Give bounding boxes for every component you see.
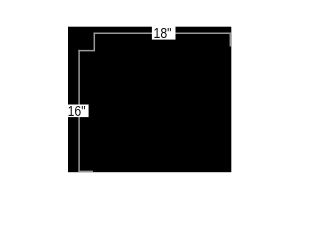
svg-text:16": 16" (68, 104, 86, 120)
canvas background (68, 27, 231, 173)
bottom corner stub (78, 170, 93, 172)
left edge (16-inch side) (78, 50, 80, 172)
notch step horizontal edge (78, 50, 95, 52)
notch vertical edge (93, 32, 95, 50)
right corner stub (229, 32, 231, 46)
top edge (18-inch side) (94, 32, 232, 34)
svg-text:18": 18" (154, 26, 172, 42)
dimension label 16" background (65, 105, 89, 118)
dimension label 18" background (152, 26, 176, 40)
